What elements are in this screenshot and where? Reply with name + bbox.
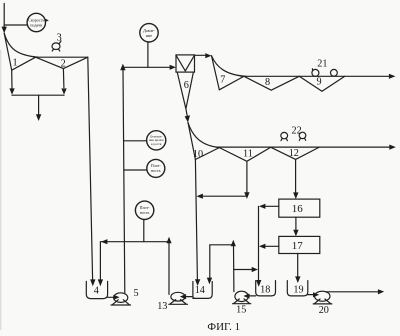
svg-text:3: 3 [57,33,62,44]
node left arrowhead on return near corner [101,239,108,244]
wire pump15 branch to collector [234,269,252,271]
svg-text:10: 10 [193,149,203,160]
svg-text:6: 6 [184,80,189,91]
svg-text:8: 8 [265,77,270,88]
node left arrowhead cross link [196,194,203,199]
wire separator11 underflow [246,161,248,192]
separator 10 left wall [188,123,195,160]
wire waste drop [38,95,40,115]
svg-text:22: 22 [292,125,302,136]
wire box17 left connector [265,245,279,247]
node outlet arrow pump20 [378,289,384,294]
wire ratio sensor tap [124,140,147,142]
svg-text:14: 14 [195,285,205,296]
svg-text:20: 20 [319,305,329,316]
wire separator2 underflow [62,69,65,88]
tank 14 [193,282,212,299]
hydrocyclone 6 body [176,55,195,72]
wire curve row1-left feed [4,33,38,57]
svg-text:ность: ность [140,210,150,215]
wire pump15 return to tank14 [210,245,234,278]
node left arrowhead box17 connector [259,244,266,249]
node arrow into tank19 [295,276,300,283]
svg-text:12: 12 [289,148,299,159]
svg-text:16: 16 [292,203,304,215]
node arrow into pump20 [313,292,319,297]
node riser15 up arrowhead [231,240,236,247]
node waste arrowhead [36,114,41,121]
block 17 [279,236,320,253]
svg-text:2: 2 [61,59,66,70]
node arrow at separator7 feed [205,53,211,58]
node underflow arrowhead [185,115,190,122]
wire pump13 return line to tank4 [100,242,169,280]
pump P5 [114,293,128,303]
pump P15 [235,291,248,301]
wire row1-left baseline [34,56,88,58]
svg-text:к раств: к раств [151,142,162,146]
node arrow into cyclone 6 [170,65,176,70]
pump P20 [315,291,330,301]
wire pump15 riser [233,246,235,292]
wire separator1 underflow [11,70,13,89]
separator 8 V [244,76,299,90]
node outlet arrow row1 [389,74,396,79]
node arrow into tank18 [256,280,261,287]
node arrow into box16 [293,192,298,199]
sensor circle: density 1 (Плотность) [147,159,165,177]
separator 1 left wall [4,33,12,70]
separator 1 right side [12,57,36,70]
node right arrowhead branch [252,267,258,272]
node small right arrow on circle [45,19,49,22]
hydrocyclone 6 cone [177,72,193,109]
node arrow into pump13 [180,294,186,299]
svg-text:21: 21 [317,59,327,70]
node riser13 up arrowhead [166,237,171,244]
node arrow into pump15 [243,294,249,299]
wire tank14 suction to pump13 [186,296,193,298]
wire separator12 underflow to box16 [295,159,297,192]
wire feed inlet vertical [3,4,5,28]
node arrow into tank14 left [195,279,200,286]
wire curve row2 feed [188,123,220,148]
node arrow into box17 [293,230,298,237]
sensor circle: density 2 (Плотность) [135,201,153,219]
node arrow into tank4 left [90,279,95,286]
sensor circle: starch/solution ratio [147,131,166,150]
wire cyclone overflow to separator 7 [195,54,206,56]
separator 11 V [218,147,271,161]
wire pump20 discharge outlet [326,291,379,293]
wire curve row1-right feed [212,56,247,77]
node left arrowhead box16 connector [259,204,266,209]
wire box16 left connector [265,205,279,207]
wire tank4 suction to pump 5 [108,296,114,298]
separator 7 right side [219,76,244,89]
wire collector line down to tank18 [258,206,260,280]
sensor circle: feed rate (Скорость подачи) [27,13,45,31]
separator 12 V [270,147,319,159]
separator 7 left wall [212,56,220,90]
svg-text:7: 7 [220,74,225,85]
node arrowhead end of sep11 underflow [244,192,249,199]
separator 10 right side [195,147,220,159]
wire cyclone underflow [186,109,187,117]
wire separator2 right end down to tank 4 [88,57,93,279]
tank 18 [256,281,276,296]
svg-text:1: 1 [12,57,17,68]
wire pump13 riser [168,243,170,295]
wire box16 to box17 [295,217,297,230]
pump P13 [171,292,185,301]
tank 4 [86,281,107,298]
wire tank18 suction to pump15 [249,295,256,297]
wire collector under separators 1-2 [12,94,64,96]
svg-text:ние: ние [146,33,152,38]
separator 2 V [36,57,88,68]
node arrow into tank14 right [207,278,212,285]
node arrow into pump5 [113,295,119,300]
node riser up arrowhead [120,64,125,71]
wire row1-right baseline with outlet [241,75,389,77]
device 21 circles [312,69,319,76]
device 22 motor symbols [281,132,288,138]
wire row2 baseline with outlet [216,146,389,148]
wire riser pump5 to cyclone feed [123,70,125,293]
sensor circle: pressure (Давление) [140,24,158,42]
motor symbol item 3 [52,43,60,50]
wire separator10 underflow to tank 14 [195,160,197,280]
svg-text:19: 19 [293,284,303,295]
wire cross link 11 to 10 [203,195,247,197]
svg-text:15: 15 [236,304,246,315]
node outlet arrow row2 [389,145,396,150]
wire box17 outlet down to tank 19 [297,254,299,277]
wire pressure sensor stem [147,42,149,67]
svg-text:подачи: подачи [30,23,43,28]
svg-text:9: 9 [317,77,322,88]
wire cyclone feed horizontal [123,66,170,68]
svg-text:ность: ность [151,168,161,173]
svg-text:4: 4 [94,286,99,297]
svg-text:17: 17 [292,240,304,252]
wire sensor tap to feed-rate circle [4,24,27,26]
scan left edge shading [0,50,2,330]
svg-text:5: 5 [133,288,138,299]
wire density1 sensor tap [124,169,147,171]
wire tank19 suction to pump20 [308,294,313,296]
tank 19 [287,281,308,296]
svg-text:13: 13 [157,301,167,312]
node arrow into collector right [61,88,66,94]
svg-text:11: 11 [243,148,253,159]
block 16 [279,199,320,217]
svg-text:18: 18 [260,284,270,295]
separator 9 V [299,76,345,91]
node feed arrowhead down [2,27,7,34]
wire density2 stem [143,220,145,242]
svg-text:ФИГ. 1: ФИГ. 1 [207,321,240,333]
node arrow into tank4 right [98,279,103,286]
node arrow into collector left [9,88,14,94]
